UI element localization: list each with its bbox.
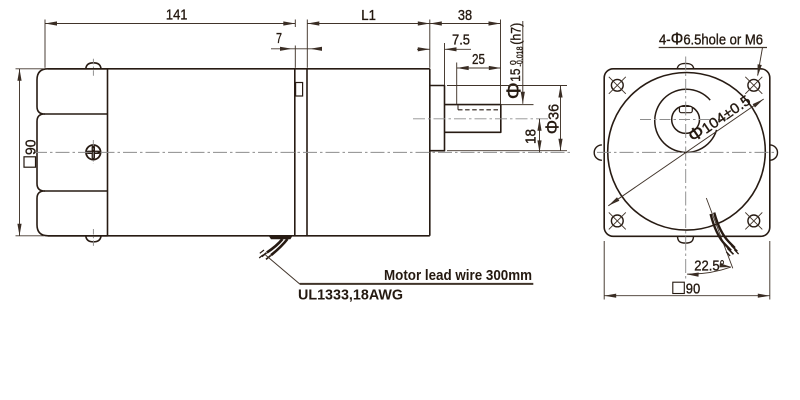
- dim sq90 ext right: [769, 241, 771, 300]
- wire position line: [706, 198, 733, 268]
- wire grommet: [269, 236, 293, 239]
- lead wire strand 2: [271, 239, 288, 255]
- mounting hole bottom-right: [748, 215, 760, 227]
- motor body circle: [608, 73, 766, 231]
- dim phi104 line: [608, 99, 763, 206]
- svg-text:-0.018: -0.018: [514, 46, 524, 66]
- lead wire leader underline: [300, 283, 534, 285]
- left side ear: [594, 145, 602, 160]
- joint tab detail: [296, 83, 303, 97]
- dim 25 ext left: [456, 63, 458, 105]
- dim 18 line: [539, 119, 541, 153]
- gearbox/motor body bottom edge: [48, 235, 430, 237]
- svg-text:90: 90: [23, 140, 40, 156]
- cap lobe division line upper: [44, 113, 108, 115]
- dim L1 ext right: [429, 20, 431, 68]
- svg-text:38: 38: [458, 7, 472, 24]
- dim 141 ext right: [294, 20, 296, 28]
- dim 7.5 left segment: [417, 48, 430, 50]
- dim side sq90 ext top: [16, 68, 45, 70]
- svg-text:141: 141: [166, 7, 188, 24]
- output boss: [430, 86, 445, 151]
- boss bottom extension: [447, 150, 567, 152]
- dim side sq90 square symbol: [24, 157, 36, 167]
- svg-text:7: 7: [276, 30, 282, 47]
- front shaft centerline: [640, 119, 727, 121]
- top screw dome: [86, 63, 101, 69]
- angle arc 22.5: [687, 267, 731, 274]
- hole spec underline: [659, 47, 767, 49]
- lead wire leader diagonal: [266, 255, 300, 284]
- svg-text:18: 18: [523, 129, 540, 144]
- svg-text:Φ: Φ: [504, 82, 526, 99]
- phillips screw centerline: [92, 140, 94, 164]
- boss top extension: [447, 85, 567, 87]
- dim 7.5 ext: [444, 43, 446, 85]
- svg-text:L1: L1: [361, 7, 376, 24]
- dim 7 line: [271, 48, 319, 50]
- top locating tab: [677, 63, 693, 68]
- front lead wire strand 2: [714, 213, 735, 248]
- mounting hole top-right: [748, 79, 760, 91]
- dim 38 ext right: [500, 20, 502, 105]
- shaft keyway hidden line: [458, 109, 501, 111]
- shaft top edge extension: [501, 104, 534, 106]
- bottom screw dome: [86, 236, 101, 242]
- mounting hole top-left: [611, 79, 623, 91]
- svg-text:22.5°: 22.5°: [694, 257, 725, 274]
- dim 38 line: [430, 23, 501, 25]
- bottom screw centerline: [92, 229, 94, 247]
- motor horizontal centerline: [33, 151, 570, 153]
- svg-text:25: 25: [472, 51, 485, 68]
- output shaft: [445, 105, 501, 133]
- svg-text:(h7): (h7): [508, 23, 524, 45]
- dim phi36 line: [560, 86, 562, 151]
- dim L1 ext left: [306, 20, 308, 68]
- svg-text:15: 15: [507, 68, 523, 81]
- front wire stripped tips: [728, 248, 734, 254]
- dim 7.5 right segment: [445, 48, 472, 50]
- svg-text:Motor lead wire 300mm: Motor lead wire 300mm: [384, 267, 532, 284]
- flange square outline: [604, 69, 770, 237]
- cap lobe division line lower: [44, 190, 108, 192]
- dim phi15 leader: [522, 21, 524, 104]
- mounting hole bottom-left: [611, 215, 623, 227]
- front vertical centerline: [685, 57, 687, 280]
- svg-text:7.5: 7.5: [452, 32, 470, 49]
- gearbox/motor body top edge: [48, 68, 430, 70]
- front horizontal centerline: [597, 151, 777, 153]
- dim sq90 square symbol: [673, 282, 685, 293]
- bottom locating tab: [678, 236, 694, 243]
- phillips screw head: [86, 145, 101, 160]
- svg-text:UL1333,18AWG: UL1333,18AWG: [298, 287, 403, 304]
- gearbox right face: [294, 69, 296, 236]
- cap rear face line: [107, 69, 109, 236]
- dim sq90 line: [604, 295, 770, 297]
- wire stripped tips: [262, 253, 267, 257]
- motor front face: [306, 69, 308, 236]
- boss circle with gap: [655, 89, 717, 152]
- hole spec leader: [758, 48, 763, 76]
- dim L1 line: [307, 23, 430, 25]
- dim side sq90 line: [19, 69, 21, 236]
- svg-text:90: 90: [686, 281, 701, 298]
- right side ear: [770, 145, 778, 160]
- shaft circle: [672, 106, 700, 134]
- dim side sq90 ext bottom: [16, 235, 45, 237]
- shaft horizontal centerline: [413, 118, 548, 120]
- front lead wire strand 1: [711, 214, 731, 251]
- shaft keyway: [679, 106, 692, 112]
- gearbox end cap with scalloped lobes: [37, 69, 108, 236]
- top screw centerline: [92, 59, 94, 76]
- dim sq90 ext left: [603, 241, 605, 300]
- dim 141 ext left: [44, 20, 46, 68]
- lead wire strand 1: [267, 239, 283, 253]
- motor rear face: [429, 69, 431, 236]
- dim 141 line: [45, 23, 295, 25]
- dim 25 line: [457, 67, 501, 69]
